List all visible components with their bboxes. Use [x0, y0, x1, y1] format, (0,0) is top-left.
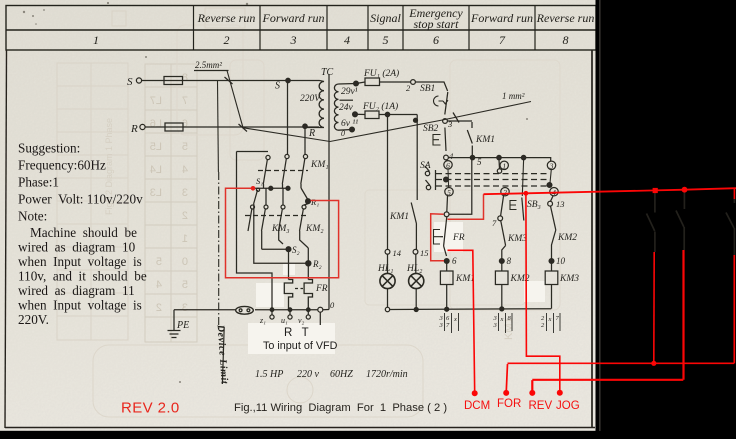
lamp HL2 — [409, 273, 424, 288]
svg-text:R: R — [130, 123, 138, 135]
circled 4 — [550, 188, 558, 198]
svg-text:R₁: R₁ — [310, 197, 319, 207]
svg-text:Fig.,11 Wiring Diagram For: Fig.,11 Wiring Diagram For 1 Phase ( 2 ) — [234, 402, 447, 414]
svg-text:Power Volt: 110v/220v: Power Volt: 110v/220v — [18, 192, 143, 207]
SA pole 1-2 link — [522, 160, 523, 196]
svg-text:FR: FR — [452, 233, 465, 243]
svg-text:15: 15 — [420, 248, 429, 258]
HL1 bus circle — [385, 307, 389, 311]
red bus junction dot B — [682, 187, 688, 193]
stub 4 to circled6 — [446, 159, 448, 162]
SB2 symbol — [433, 135, 441, 146]
SA blades — [425, 166, 436, 190]
sheet left border — [5, 50, 7, 428]
svg-text:4: 4 — [156, 279, 162, 291]
S2 drop to FR — [288, 249, 290, 279]
S node junction — [286, 78, 290, 82]
KM2 coil box — [495, 271, 508, 285]
REV wire — [532, 250, 683, 393]
svg-text:KM₃: KM₃ — [271, 224, 290, 234]
svg-text:KM1: KM1 — [389, 212, 409, 222]
HL1 lead — [387, 254, 389, 273]
circled 6 — [444, 161, 452, 170]
red stub above contact C — [733, 189, 735, 200]
row2 dashed linkage — [245, 215, 306, 217]
svg-text:L5: L5 — [150, 141, 162, 153]
tap 24v wire to FU2 — [355, 113, 417, 115]
SB3 blade — [522, 198, 524, 221]
svg-text:1.5 HP: 1.5 HP — [255, 369, 283, 380]
svg-text:R₂: R₂ — [312, 259, 322, 269]
transformer core — [328, 74, 330, 310]
tick on S wire — [225, 77, 233, 84]
red bus junction square A — [653, 188, 658, 193]
svg-text:KM3: KM3 — [559, 274, 579, 284]
svg-text:1720r/min: 1720r/min — [366, 369, 408, 380]
contact KM-A in black area — [647, 193, 655, 253]
svg-text:0: 0 — [182, 256, 188, 268]
svg-text:when Input voltage is: when Input voltage is — [18, 254, 142, 269]
svg-text:S₂: S₂ — [292, 245, 300, 255]
svg-text:3: 3 — [290, 33, 297, 47]
svg-text:SB₃: SB₃ — [527, 200, 541, 210]
0 stub — [320, 310, 329, 326]
wire table group3 — [541, 313, 560, 333]
tap 24v dot — [353, 112, 358, 117]
svg-text:220V.: 220V. — [18, 312, 49, 327]
S1 column to R2 — [254, 204, 306, 263]
svg-text:5: 5 — [383, 33, 389, 47]
node8 to coil — [501, 261, 503, 271]
node 10 dot — [549, 259, 554, 264]
SA dashed row 1 — [436, 173, 550, 175]
svg-text:3: 3 — [549, 162, 554, 171]
node 5 bus — [449, 158, 551, 162]
REDOVERLAY — [448, 187, 736, 412]
terminal 0 circle — [318, 307, 323, 312]
FOR junction dot — [651, 361, 656, 366]
svg-text:3: 3 — [182, 187, 188, 199]
contact KM-B in black area — [676, 192, 684, 251]
leader diagonal 2.5mm2 to 1mm2 — [227, 71, 531, 142]
bottom bus mid — [255, 309, 318, 311]
hold wire 3 to KM1 aux — [447, 120, 472, 122]
KM1 coil box — [440, 271, 453, 285]
SA dashed row 2 — [436, 179, 550, 181]
FOR wire — [506, 255, 734, 393]
wire c4 to 13 — [551, 196, 554, 201]
svg-text:KM1: KM1 — [475, 135, 495, 145]
svg-text:S: S — [127, 76, 133, 88]
TABLE — [6, 6, 596, 51]
KM1 contact 2 — [285, 154, 289, 158]
svg-text:60HZ: 60HZ — [330, 369, 353, 380]
terminal 13 circle — [548, 201, 553, 206]
svg-text:L4: L4 — [150, 164, 162, 176]
wire table group1 — [439, 313, 459, 333]
S2 node dot — [286, 247, 291, 252]
S input circle — [136, 78, 141, 83]
red link 5 to 6 — [431, 214, 444, 261]
KM1 bus dot — [445, 307, 449, 311]
contact KM-C in black area — [726, 190, 734, 256]
svg-text:1 mm²: 1 mm² — [502, 91, 525, 101]
KM3 blade — [501, 221, 506, 259]
svg-text:x: x — [500, 316, 504, 323]
R1 node dot — [306, 199, 311, 204]
circled 1 — [500, 161, 508, 170]
transformer primary coil — [306, 81, 324, 128]
WHITEOUT — [248, 222, 545, 354]
svg-text:L7: L7 — [150, 95, 162, 107]
svg-text:KM₂: KM₂ — [305, 224, 324, 234]
svg-text:FU₁ (2A): FU₁ (2A) — [363, 68, 399, 79]
svg-text:L3: L3 — [150, 187, 162, 199]
2.5mm2 underline — [194, 70, 229, 72]
svg-text:HL₂: HL₂ — [406, 264, 423, 274]
winding separator — [340, 99, 354, 101]
svg-text:KM1: KM1 — [455, 274, 475, 284]
circled 2 — [501, 188, 509, 198]
terminal 3 circle — [443, 119, 448, 124]
FOR terminal dot — [503, 390, 509, 396]
R input circle — [140, 124, 145, 129]
SA pole 3-4 link — [550, 170, 551, 184]
FOR vertical from contact A — [653, 252, 655, 363]
tick on R wire — [239, 124, 248, 132]
node10 to coil — [551, 261, 553, 271]
svg-text:220 v: 220 v — [297, 369, 320, 380]
svg-text:REV: REV — [529, 400, 553, 412]
terminal 14 circle — [385, 249, 390, 254]
svg-text:5: 5 — [447, 188, 451, 197]
red bus junction dot JOG — [524, 191, 529, 196]
KM3 coil to bus — [551, 285, 553, 309]
sheet right border (at black edge) — [591, 50, 593, 428]
svg-text:1: 1 — [502, 162, 506, 171]
svg-text:when Input voltage is: when Input voltage is — [18, 298, 142, 313]
device limit dash-dot line — [218, 172, 220, 330]
table column dividers — [194, 6, 536, 51]
REV terminal dot — [529, 390, 535, 396]
black right region — [596, 0, 736, 439]
S wire to fuse — [142, 80, 165, 82]
DCM terminal dot — [472, 390, 478, 396]
svg-text:z₁: z₁ — [259, 316, 266, 325]
svg-text:FR: FR — [315, 284, 328, 294]
svg-text:SB1: SB1 — [420, 84, 435, 94]
tick mid — [453, 113, 459, 123]
R2 node dot — [306, 261, 311, 266]
svg-text:R: R — [308, 128, 315, 139]
svg-text:KM2: KM2 — [557, 233, 577, 243]
svg-text:TC: TC — [321, 67, 334, 78]
JOG wire — [526, 193, 560, 392]
HL1 bottom — [387, 289, 389, 308]
svg-text:2: 2 — [224, 33, 230, 47]
table row divider — [6, 29, 596, 31]
terminal 2 circle — [411, 80, 416, 85]
svg-text:x: x — [453, 316, 457, 323]
KM1 dashed linkage — [258, 170, 308, 172]
node6 to coil — [446, 261, 448, 271]
FR dashed link — [441, 236, 446, 238]
svg-text:5: 5 — [182, 279, 188, 291]
HL2 bus dot — [414, 308, 418, 312]
R wire to fuse — [145, 126, 165, 128]
R wire — [183, 126, 319, 128]
lamp HL1 — [380, 273, 395, 288]
wire 2 to SB1 — [416, 82, 448, 91]
svg-text:13: 13 — [556, 199, 565, 209]
svg-text:8: 8 — [507, 256, 512, 266]
wire 5-circle — [444, 212, 449, 217]
svg-text:REV 2.0: REV 2.0 — [121, 400, 180, 417]
tap 29v wire to FU1 — [356, 82, 411, 84]
red bus wire — [484, 188, 736, 194]
REDSCAN — [226, 186, 484, 278]
bus junction dots — [270, 308, 274, 312]
svg-text:L6: L6 — [150, 118, 162, 130]
svg-text:6: 6 — [446, 161, 450, 170]
Z1 stub and circle — [271, 310, 273, 315]
svg-text:220V: 220V — [300, 94, 321, 104]
red box around reversing block — [226, 188, 339, 277]
wire 5-circle to node5 — [449, 160, 472, 215]
KM2 bus dot — [500, 307, 504, 311]
S1 switch blade — [254, 190, 258, 204]
node 5 dot — [470, 155, 474, 159]
R column drop — [304, 128, 306, 155]
S1 junction dots — [269, 186, 273, 190]
svg-text:KM₁: KM₁ — [310, 160, 329, 170]
stub circled5 down — [446, 196, 449, 212]
svg-text:2: 2 — [503, 188, 507, 197]
svg-text:Machine should be: Machine should be — [30, 225, 137, 240]
FR element dashed link — [295, 288, 303, 290]
svg-text:R T: R T — [284, 327, 309, 339]
red bus drop to FR — [448, 194, 484, 219]
svg-text:FOR: FOR — [497, 398, 521, 410]
svg-text:1: 1 — [93, 33, 99, 47]
junction dot diagonal-HL2col — [414, 118, 418, 122]
svg-text:S₁: S₁ — [256, 176, 263, 186]
SA dot row3 — [547, 183, 552, 188]
black bottom strip — [0, 431, 736, 439]
fuse FU2 — [365, 111, 379, 119]
svg-text:u₁: u₁ — [281, 316, 288, 325]
V2 stub and circle — [307, 310, 309, 315]
FR relay bracket — [434, 230, 441, 245]
PE drop and ground — [168, 310, 181, 338]
KM2 blade — [551, 206, 556, 259]
svg-text:Forward run: Forward run — [470, 11, 533, 25]
left block left drop — [237, 152, 273, 310]
svg-text:24v: 24v — [339, 103, 354, 113]
svg-text:Reverse run: Reverse run — [197, 11, 256, 25]
svg-text:6v ¹¹: 6v ¹¹ — [341, 119, 358, 129]
HL1 branch dot — [385, 112, 389, 116]
control bus — [390, 308, 552, 311]
svg-text:4: 4 — [182, 164, 188, 176]
svg-text:2: 2 — [182, 210, 188, 222]
fuse FU-R — [165, 123, 183, 131]
paper edge line — [599, 0, 601, 431]
svg-text:3: 3 — [182, 302, 188, 314]
wire table group2 — [493, 313, 513, 333]
JOG terminal dot — [557, 390, 563, 396]
FR element left heater — [284, 280, 292, 310]
transformer secondary coil — [334, 84, 356, 131]
S2 wire — [262, 248, 289, 250]
svg-text:29v¹: 29v¹ — [341, 87, 358, 97]
row2 contact b — [264, 205, 268, 209]
R node junction — [303, 124, 307, 128]
svg-text:7: 7 — [182, 95, 188, 107]
SB1 blade — [445, 92, 448, 115]
HL1 column — [387, 117, 389, 250]
svg-text:10: 10 — [556, 256, 566, 266]
HL2 lead — [415, 254, 417, 273]
S1 wire — [253, 187, 288, 189]
svg-text:Suggestion:: Suggestion: — [18, 141, 80, 156]
svg-text:DCM: DCM — [464, 400, 490, 412]
svg-text:JOG: JOG — [556, 400, 580, 412]
svg-text:6: 6 — [452, 256, 457, 266]
KM1 NO blade HL2 — [411, 203, 416, 250]
sheet bottom border — [5, 427, 595, 429]
svg-text:Reverse run: Reverse run — [536, 11, 595, 25]
svg-text:stop start: stop start — [413, 17, 459, 31]
svg-text:KM3: KM3 — [507, 234, 527, 244]
svg-text:Phase:1: Phase:1 — [18, 175, 59, 190]
terminal 7 circle — [498, 216, 503, 221]
left block top wire — [237, 151, 269, 153]
svg-text:Frequency:60Hz: Frequency:60Hz — [18, 158, 106, 173]
svg-text:Note:: Note: — [18, 209, 47, 224]
device limit underline — [222, 327, 224, 384]
table outer frame — [6, 6, 596, 51]
svg-text:SB2: SB2 — [423, 124, 439, 134]
svg-text:14: 14 — [393, 248, 402, 258]
svg-text:Signal: Signal — [370, 11, 401, 25]
U1 stub and circle — [289, 310, 291, 315]
HL2 bottom — [415, 289, 417, 310]
terminal 4 circle — [444, 155, 449, 160]
SB1 mushroom head — [434, 96, 448, 106]
SA dot row2 — [444, 177, 449, 182]
svg-text:5: 5 — [182, 141, 188, 153]
SB3 symbol — [510, 201, 517, 210]
oval connector — [236, 306, 254, 314]
row2 contact c — [281, 205, 285, 209]
svg-text:S: S — [275, 81, 280, 92]
svg-text:2: 2 — [156, 302, 162, 314]
SB2 blade — [445, 128, 446, 152]
svg-text:8: 8 — [563, 33, 569, 47]
row2 feeds — [266, 188, 308, 205]
TEXTBLOCK — [18, 141, 147, 328]
CAPTIONS — [121, 327, 447, 417]
R1 drop — [301, 188, 308, 200]
svg-text:PE: PE — [176, 320, 189, 331]
svg-text:To input of VFD: To input of VFD — [263, 340, 338, 352]
row2 contact d — [302, 205, 306, 209]
svg-text:FU₂ (1A): FU₂ (1A) — [362, 101, 398, 112]
svg-text:6: 6 — [433, 33, 439, 47]
KM1 contact 1 — [266, 155, 270, 159]
KM1 contact 3 — [303, 154, 307, 158]
SA contact circles — [425, 171, 429, 175]
FR relay blade — [444, 217, 447, 256]
svg-text:2.5mm²: 2.5mm² — [195, 60, 222, 70]
svg-text:1: 1 — [182, 233, 188, 245]
SA pole 6-5 — [447, 169, 450, 188]
tap 0 dot — [350, 127, 355, 132]
fuse FU-S — [164, 77, 183, 85]
stub 1 circle — [498, 160, 501, 169]
red S1 dot — [251, 186, 256, 191]
paper background — [0, 0, 1, 1]
svg-text:HL₁: HL₁ — [377, 264, 393, 274]
fuse FU1 — [365, 78, 380, 86]
svg-text:wired as diagram 11: wired as diagram 11 — [18, 283, 135, 298]
svg-text:5: 5 — [477, 157, 482, 167]
node 6 dot — [444, 259, 449, 264]
S column drop — [287, 82, 289, 155]
wire c2 to 7 — [501, 196, 504, 216]
svg-text:wired as diagram 10: wired as diagram 10 — [18, 240, 136, 255]
node 5 dots — [497, 155, 501, 159]
svg-text:5: 5 — [156, 256, 162, 268]
tap 29v dot — [354, 81, 359, 86]
svg-text:7: 7 — [499, 33, 506, 47]
svg-text:4: 4 — [344, 33, 350, 47]
device limit solid upper segment — [217, 81, 220, 172]
node 8 dot — [499, 259, 504, 264]
svg-text:Forward run: Forward run — [262, 11, 325, 25]
KM1 coil to bus — [446, 285, 448, 310]
S wire — [183, 80, 320, 82]
FR element right heater — [304, 280, 312, 310]
circled 3 — [547, 161, 555, 170]
KM3 coil box — [545, 271, 558, 285]
DCM wire — [448, 250, 475, 393]
KM1 aux blade — [467, 122, 472, 155]
svg-text:110v, and it should be: 110v, and it should be — [18, 269, 147, 284]
circled 5 — [445, 188, 453, 198]
R2 drop to FR — [307, 248, 309, 280]
terminal 15 circle — [413, 249, 418, 254]
row2 contact a — [251, 205, 255, 209]
bottom bus left — [174, 309, 236, 311]
svg-text:v₂: v₂ — [298, 316, 305, 325]
KM2 coil to bus — [501, 285, 503, 309]
GHOSTS — [23, 2, 528, 383]
SA dashed row 3 — [436, 185, 550, 187]
svg-text:x: x — [548, 316, 552, 323]
HL2 column top — [416, 115, 418, 201]
